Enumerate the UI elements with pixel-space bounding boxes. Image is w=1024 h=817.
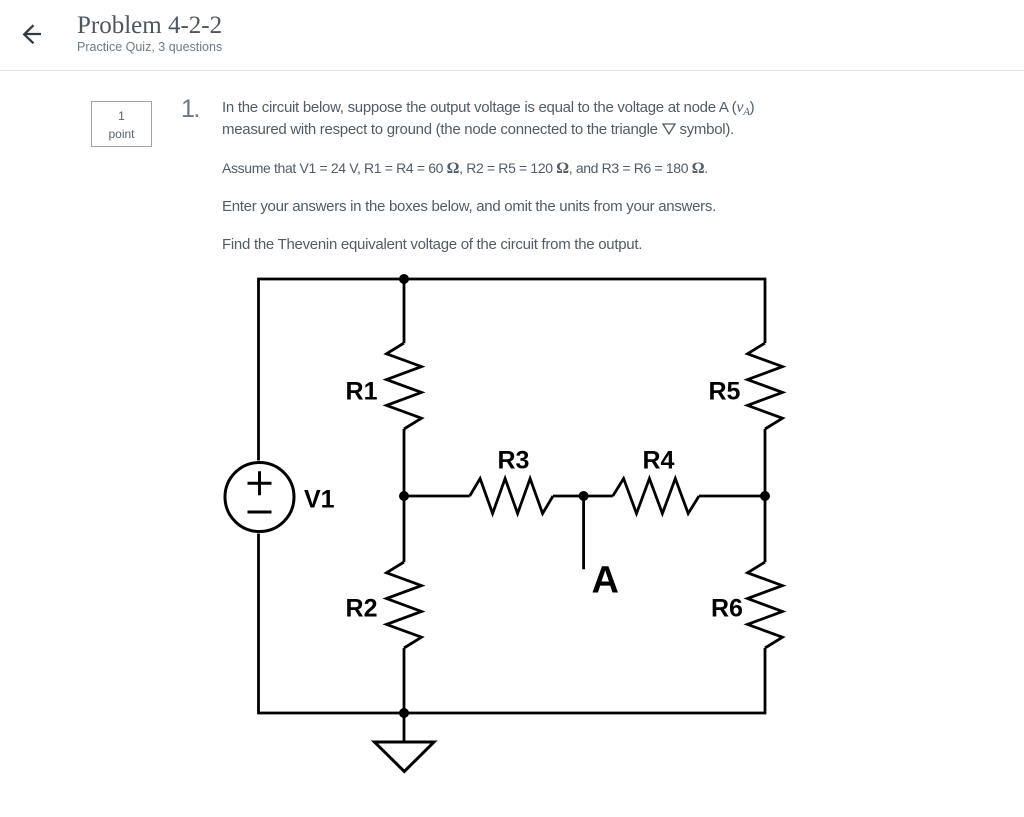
svg-text:R4: R4 (643, 447, 675, 475)
svg-text:R5: R5 (709, 378, 741, 406)
junction dot node A (579, 491, 589, 501)
wire middle horizontal left (404, 495, 470, 498)
resistor R1 (387, 343, 422, 429)
junction dot bottom (399, 708, 409, 718)
wire right vertical R5-node (764, 429, 767, 562)
wire middle horizontal center (553, 495, 613, 498)
V1 minus sign (248, 511, 272, 514)
svg-text:R1: R1 (346, 378, 378, 406)
svg-text:R6: R6 (711, 595, 743, 623)
header divider (0, 70, 1024, 71)
resistor R5 (748, 343, 783, 429)
wire mid-left vertical R1-node (403, 429, 406, 496)
header title (77, 12, 222, 40)
junction dot mid-left (399, 491, 409, 501)
junction dot mid-right (760, 491, 770, 501)
resistor R2 (387, 562, 422, 648)
voltage source V1 circle (225, 463, 294, 532)
V1 plus sign (248, 471, 272, 495)
ground stub (403, 713, 406, 741)
resistor R4 (613, 479, 699, 514)
wire middle horizontal right (699, 495, 765, 498)
header back arrow (0, 0, 60, 60)
wire mid-left vertical upper (403, 279, 406, 343)
resistor R6 (748, 562, 783, 648)
question text (222, 97, 802, 256)
wire mid-left vertical node-R2 (403, 496, 406, 562)
junction dot top (399, 274, 409, 284)
wire node A stub (582, 496, 585, 569)
wire bottom rail (259, 534, 766, 714)
ground triangle (375, 742, 435, 772)
svg-text:V1: V1 (304, 486, 335, 514)
svg-text:R3: R3 (498, 447, 530, 475)
svg-text:A: A (592, 560, 619, 602)
svg-text:R2: R2 (346, 595, 378, 623)
resistor R3 (470, 479, 553, 514)
points box (91, 101, 152, 147)
question number (181, 95, 199, 124)
header subtitle (77, 40, 222, 54)
wire mid-left vertical lower (403, 648, 406, 713)
wire top rail (259, 279, 766, 461)
